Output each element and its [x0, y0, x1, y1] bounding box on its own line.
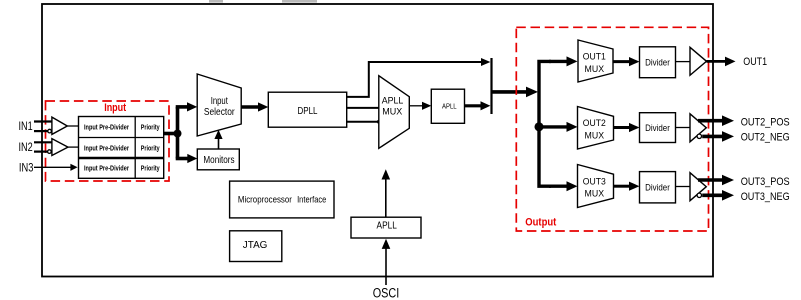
svg-text:APLL: APLL [442, 103, 457, 110]
svg-text:OUT2: OUT2 [583, 118, 606, 129]
svg-text:IN2: IN2 [19, 140, 33, 154]
svg-text:Selector: Selector [204, 107, 235, 118]
svg-text:Divider: Divider [645, 123, 670, 133]
svg-text:Input: Input [211, 96, 228, 107]
svg-text:Input: Input [104, 102, 126, 114]
svg-text:IN3: IN3 [19, 161, 34, 175]
svg-text:Interface: Interface [297, 195, 326, 206]
svg-text:OUT3: OUT3 [583, 177, 606, 188]
svg-text:OUT3_POS: OUT3_POS [741, 176, 790, 188]
svg-text:MUX: MUX [382, 106, 403, 117]
svg-text:Input Pre-Divider: Input Pre-Divider [84, 145, 129, 152]
svg-text:Input Pre-Divider: Input Pre-Divider [84, 124, 129, 131]
svg-text:OUT2_POS: OUT2_POS [741, 116, 790, 128]
svg-text:Monitors: Monitors [203, 155, 234, 166]
svg-text:Divider: Divider [645, 57, 670, 67]
svg-text:Priority: Priority [141, 145, 160, 152]
svg-text:APLL: APLL [377, 220, 397, 232]
svg-text:IN1: IN1 [19, 119, 33, 133]
svg-text:Priority: Priority [141, 124, 160, 131]
svg-text:OUT3_NEG: OUT3_NEG [741, 191, 790, 203]
svg-text:OUT2_NEG: OUT2_NEG [741, 132, 790, 144]
svg-text:APLL: APLL [382, 95, 404, 106]
svg-text:DPLL: DPLL [298, 105, 318, 117]
svg-text:Input Pre-Divider: Input Pre-Divider [84, 166, 129, 173]
svg-text:MUX: MUX [585, 130, 605, 141]
svg-text:Priority: Priority [141, 166, 160, 173]
svg-text:Microprocessor: Microprocessor [238, 195, 292, 206]
svg-text:Output: Output [525, 216, 556, 228]
svg-text:OUT1: OUT1 [743, 56, 767, 68]
svg-text:OUT1: OUT1 [583, 52, 606, 63]
svg-text:JTAG: JTAG [243, 240, 268, 251]
svg-text:OSCI: OSCI [373, 285, 400, 300]
svg-text:Divider: Divider [645, 183, 670, 193]
svg-text:MUX: MUX [585, 64, 605, 75]
svg-text:MUX: MUX [585, 189, 605, 200]
